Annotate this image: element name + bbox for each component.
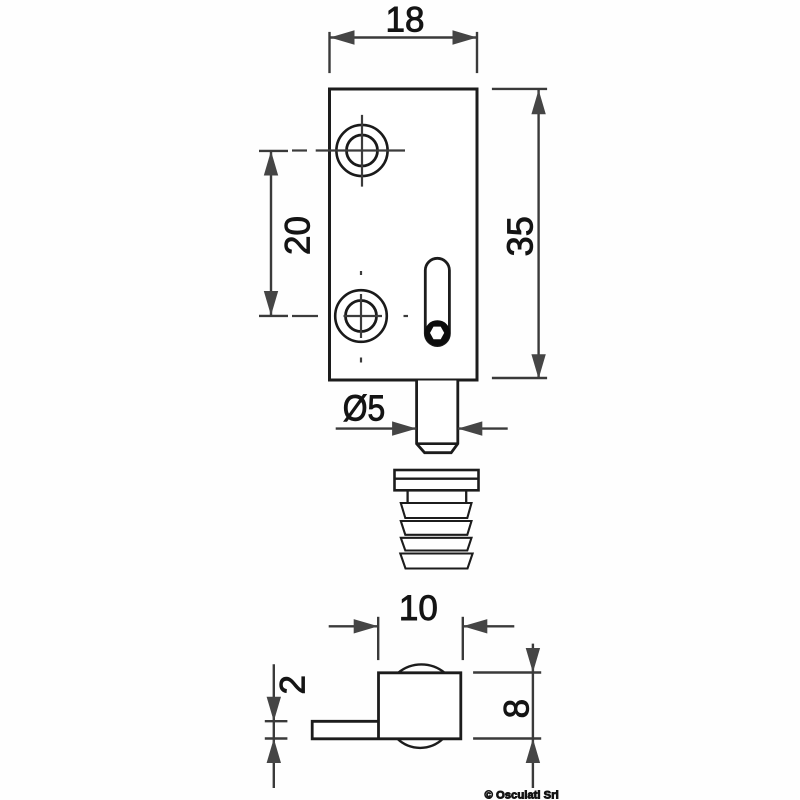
dimension 18 left extension line: [328, 32, 330, 73]
dimension 8 top tick: [473, 671, 541, 673]
svg-text:Ø5: Ø5: [343, 388, 386, 429]
dimension 35 top arrow: [531, 90, 545, 115]
plug rib 3: [401, 538, 472, 551]
hole H2 centerline horizontal: [292, 315, 408, 317]
bracket top arc: [398, 664, 444, 672]
hole H2 inner circle: [346, 301, 377, 332]
plug neck right: [465, 490, 467, 502]
plug rib 1: [401, 503, 472, 518]
plug cap inner line: [395, 478, 479, 480]
dimension 18 right arrow: [453, 30, 478, 44]
dimension 35 top tick: [492, 88, 547, 90]
svg-text:10: 10: [399, 589, 438, 628]
dimension 20 top tick: [259, 150, 288, 152]
dimension 18 left arrow: [330, 30, 355, 44]
dimension 35 bottom tick: [492, 377, 547, 379]
svg-text:2: 2: [274, 675, 313, 694]
svg-text:8: 8: [497, 699, 536, 718]
bracket bottom arc: [397, 739, 443, 748]
dimension D5 left line: [336, 427, 417, 429]
dimension 20 bottom arrow: [264, 291, 278, 316]
dimension 8 line: [532, 644, 534, 788]
dimension 20 line: [270, 151, 272, 316]
dimension 10 left line: [329, 625, 379, 627]
dimension 18 line: [330, 36, 477, 38]
dimension D5 right line: [458, 427, 508, 429]
plate outline: [330, 89, 478, 380]
plug cap: [395, 470, 479, 490]
slot (capsule): [425, 258, 449, 345]
dimension 10 right arrow: [463, 619, 488, 633]
dimension 10 right extension line: [462, 617, 464, 660]
hex standoff ring in slot: [425, 320, 451, 346]
hole H1 inner circle: [347, 135, 378, 166]
dimension 8 bottom tick: [473, 737, 541, 739]
hole H2 outer circle: [335, 290, 387, 342]
svg-text:35: 35: [500, 216, 541, 256]
hole H1 centerline horizontal: [292, 149, 405, 151]
dimension D5 right arrow: [458, 421, 483, 435]
hole H1 centerline vertical: [361, 115, 363, 187]
dimension 10 left arrow: [354, 619, 379, 633]
dimension 8 down arrow: [526, 648, 540, 673]
plug rib 2: [401, 521, 472, 535]
dimension 2 up arrow: [267, 739, 281, 764]
plug neck left: [406, 490, 408, 502]
dimension 2 line: [273, 664, 275, 788]
dimension 35 bottom arrow: [531, 354, 545, 379]
dimension 18 right extension line: [476, 32, 478, 73]
svg-text:18: 18: [386, 1, 425, 40]
dimension 2 bottom tick: [265, 737, 288, 739]
hole H2 centerline vertical: [360, 271, 362, 363]
dimension 10 right line: [463, 625, 515, 627]
dimension 10 left extension line: [377, 617, 379, 660]
dimension 8 up arrow: [526, 739, 540, 764]
dimension 20 top arrow: [264, 151, 278, 176]
dimension 2 down arrow: [267, 697, 281, 722]
stud chamfer line: [417, 442, 458, 445]
svg-text:20: 20: [279, 216, 318, 255]
dimension 20 bottom tick: [259, 315, 288, 317]
dimension 2 top tick: [265, 720, 288, 722]
bracket main body: [312, 673, 461, 739]
dimension D5 left arrow: [392, 421, 417, 435]
stud (pin) outline: [417, 381, 458, 453]
dimension 35 line: [537, 90, 539, 379]
hole H1 outer circle: [336, 125, 387, 176]
plug rib 4: [400, 554, 472, 569]
svg-text:© Osculati Srl: © Osculati Srl: [485, 790, 559, 800]
